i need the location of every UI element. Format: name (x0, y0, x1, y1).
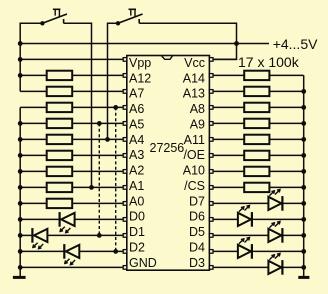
LED D6 (238, 213, 251, 226)
wire D4 row right (252, 250, 304, 252)
pin D5 (209, 234, 213, 238)
wire D3 row right (282, 266, 303, 268)
wire D5 row left (213, 234, 268, 236)
svg-text:D5: D5 (189, 225, 205, 239)
wire Vcc corner to Vcc pin (213, 58, 237, 60)
wire A0 row right (72, 202, 123, 204)
wire D6 row right (252, 218, 304, 220)
LED D0 (58, 212, 60, 227)
resistor RA6 (47, 103, 72, 112)
wire A6 row right (72, 106, 123, 108)
resistor RA3 (47, 151, 72, 160)
wire D0 row left (20, 218, 59, 220)
LED D3 (268, 261, 281, 274)
wire A7 row right (72, 90, 123, 92)
svg-text:/OE: /OE (183, 148, 205, 162)
node Vpp junction (18, 57, 23, 62)
node +V junction (234, 41, 239, 46)
svg-text:A2: A2 (129, 164, 144, 178)
resistor RA7 (47, 87, 72, 96)
node A10 bus junction (301, 169, 306, 174)
svg-text:A12: A12 (129, 71, 151, 85)
wire A2 row right (72, 170, 123, 172)
wire A9 row right (269, 122, 303, 124)
node S2-A4 junction (105, 137, 110, 142)
node /OE bus junction (301, 153, 306, 158)
pin D2 (123, 250, 127, 254)
wire A4 row left (20, 138, 47, 140)
wire A9 row left (213, 122, 244, 124)
resistor RA13 (244, 87, 269, 96)
resistor RA0 (47, 199, 72, 208)
vertical wire A (S1 output) (91, 23, 93, 188)
pin D7 (209, 202, 213, 206)
resistor RA14 (244, 71, 269, 80)
wire A13 row right (269, 90, 303, 92)
svg-text:Vcc: Vcc (184, 56, 205, 70)
node A1 junction (18, 185, 23, 190)
wire /CS row right (269, 186, 303, 188)
wire A14 row right (269, 74, 303, 76)
pin A1 (123, 186, 127, 190)
pin A2 (123, 170, 127, 174)
pin A13 (209, 90, 213, 94)
wire A1 row left (20, 186, 47, 188)
wire A2 row left (20, 170, 47, 172)
node A12 junction (18, 73, 23, 78)
wire A8 row right (269, 106, 303, 108)
resistor R/OE (244, 151, 269, 160)
wire /OE row right (269, 154, 303, 156)
resistor RA11 (244, 135, 269, 144)
wire A5 row right (72, 122, 123, 124)
svg-text:A13: A13 (183, 87, 205, 101)
dashed link A5-D1 (98, 123, 100, 235)
svg-text:GND: GND (129, 256, 157, 270)
wire A14 row left (213, 74, 244, 76)
switch S2 (116, 21, 120, 25)
top supply wire (20, 43, 269, 45)
svg-text:Vpp: Vpp (129, 56, 151, 70)
node D0 junction (18, 217, 23, 222)
wire D0 row right (75, 218, 124, 220)
svg-text:A14: A14 (183, 71, 205, 85)
wire A3 row right (72, 154, 123, 156)
pin A0 (123, 202, 127, 206)
wire /CS row left (213, 186, 244, 188)
node A3 junction (18, 153, 23, 158)
pin A5 (123, 122, 127, 126)
IC notch (162, 56, 173, 59)
wire D1 row right (47, 234, 123, 236)
pin D4 (209, 250, 213, 254)
svg-text:17 x 100k: 17 x 100k (238, 54, 300, 70)
node D3 bus junction (301, 265, 306, 270)
svg-text:/CS: /CS (184, 179, 205, 193)
wire A10 row right (269, 170, 303, 172)
LED D4 (238, 245, 251, 258)
wire S1 to vertical A (64, 22, 92, 24)
svg-text:A6: A6 (129, 102, 144, 116)
svg-text:A5: A5 (129, 118, 144, 132)
switch S1 left wire (20, 22, 42, 24)
svg-text:D0: D0 (129, 210, 145, 224)
wire A8 row left (213, 106, 244, 108)
pin A14 (209, 74, 213, 78)
node A9 bus junction (301, 121, 306, 126)
wire /OE row left (213, 154, 244, 156)
svg-text:D7: D7 (189, 194, 205, 208)
node A0 junction (18, 201, 23, 206)
node /CS bus junction (301, 185, 306, 190)
wire A11 row left (213, 138, 244, 140)
svg-text:A8: A8 (190, 102, 205, 116)
pin A10 (209, 170, 213, 174)
wire A13 row left (213, 90, 244, 92)
pin A6 (123, 106, 127, 110)
pin D0 (123, 218, 127, 222)
svg-text:+4...5V: +4...5V (273, 36, 318, 52)
dashed link A6-D2 (115, 107, 117, 251)
node top wire junction (18, 41, 23, 46)
pin D6 (209, 218, 213, 222)
wire A7 row left (20, 90, 47, 92)
pin A8 (209, 106, 213, 110)
node D1 junction (18, 233, 23, 238)
node A5 junction (18, 121, 23, 126)
node S1-A1 junction (89, 185, 94, 190)
svg-text:A7: A7 (129, 87, 144, 101)
wire A6 row left (20, 106, 47, 108)
svg-text:27256: 27256 (150, 141, 185, 155)
wire D4 row left (213, 250, 238, 252)
svg-text:D2: D2 (129, 240, 145, 254)
wire D2 row left (20, 250, 63, 252)
left bus lower segment (19, 107, 21, 277)
resistor R/CS (244, 183, 269, 192)
wire D3 row left (213, 266, 268, 268)
pin Vcc (209, 58, 213, 62)
wire A1 row right (72, 186, 123, 188)
wire GND row (20, 266, 123, 268)
pin Vpp (123, 58, 127, 62)
wire D2 row right (79, 250, 123, 252)
right bus (303, 75, 305, 277)
pin D1 (123, 234, 127, 238)
node D4 bus junction (301, 249, 306, 254)
node A11 bus junction (301, 137, 306, 142)
svg-text:A10: A10 (183, 164, 205, 178)
pin A11 (209, 138, 213, 142)
svg-text:A0: A0 (129, 194, 144, 208)
svg-text:A4: A4 (129, 133, 144, 147)
pin A12 (123, 74, 127, 78)
node D7 bus junction (301, 201, 306, 206)
pin A4 (123, 138, 127, 142)
wire Vcc row (213, 58, 237, 60)
svg-text:D4: D4 (189, 240, 205, 254)
wire S2 to +V rail (139, 23, 236, 59)
pin /CS (209, 186, 213, 190)
resistor RA4 (47, 135, 72, 144)
node A8 bus junction (301, 105, 306, 110)
wire A0 row left (20, 202, 47, 204)
node D5 bus junction (301, 233, 306, 238)
wire Vpp row (20, 58, 123, 60)
wire D7 row right (282, 202, 303, 204)
wire D5 row right (282, 234, 303, 236)
wire A4 row right (72, 138, 123, 140)
resistor RA9 (244, 119, 269, 128)
pin A9 (209, 122, 213, 126)
node D6 bus junction (301, 217, 306, 222)
wire to switch S2 (108, 23, 119, 139)
resistor RA12 (47, 71, 72, 80)
svg-text:A9: A9 (190, 118, 205, 132)
node GND junction (18, 265, 23, 270)
node A2 junction (18, 169, 23, 174)
wire A5 row left (20, 122, 47, 124)
LED D2 (63, 244, 65, 259)
pin /OE (209, 154, 213, 158)
svg-text:A3: A3 (129, 148, 144, 162)
resistor RA1 (47, 183, 72, 192)
ground right (298, 276, 309, 279)
IC U1 27256 body (127, 56, 210, 271)
wire D1 row left (20, 234, 31, 236)
resistor RA2 (47, 167, 72, 176)
wire D6 row left (213, 218, 238, 220)
left bus upper segment (19, 23, 21, 92)
pin D3 (209, 266, 213, 270)
LED D5 (268, 229, 281, 242)
wire D7 row left (213, 202, 268, 204)
node A4 junction (18, 137, 23, 142)
resistor RA8 (244, 103, 269, 112)
pin A3 (123, 154, 127, 158)
svg-text:D6: D6 (189, 210, 205, 224)
node D2 junction (18, 249, 23, 254)
pin GND (123, 266, 127, 270)
node A13 bus junction (301, 89, 306, 94)
LED D7 (268, 197, 281, 210)
svg-text:D3: D3 (189, 256, 205, 270)
pin A7 (123, 90, 127, 94)
wire A10 row left (213, 170, 244, 172)
wire A11 row right (269, 138, 303, 140)
svg-text:A1: A1 (129, 179, 144, 193)
LED D1 (31, 228, 33, 243)
resistor RA10 (244, 167, 269, 176)
wire A12 row left (20, 74, 47, 76)
svg-text:D1: D1 (129, 225, 145, 239)
switch S1 (40, 21, 44, 25)
ground left (13, 276, 26, 279)
svg-text:A11: A11 (184, 133, 205, 147)
wire A12 row right (72, 74, 123, 76)
resistor RA5 (47, 119, 72, 128)
wire A3 row left (20, 154, 47, 156)
